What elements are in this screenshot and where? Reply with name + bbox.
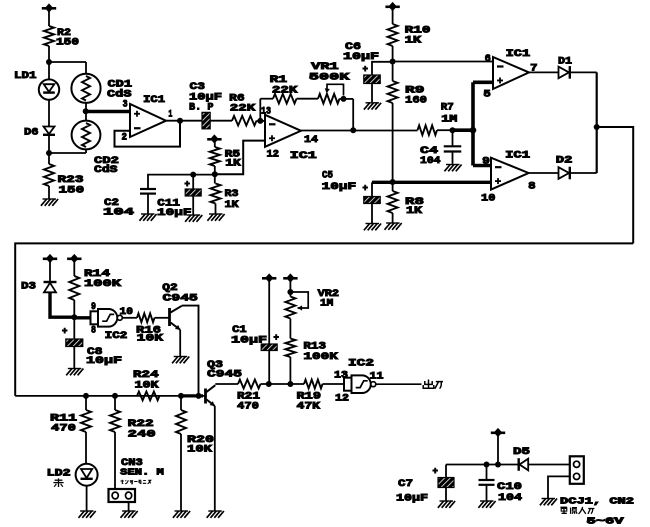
ground — [438, 501, 455, 508]
capacitor C8 — [62, 327, 83, 347]
svg-text:10μF: 10μF — [231, 334, 267, 346]
wire — [497, 435, 499, 465]
wire — [289, 280, 291, 297]
capacitor C1 — [261, 333, 279, 351]
svg-text:10μF: 10μF — [343, 51, 379, 63]
svg-text:1M: 1M — [441, 113, 457, 125]
diode D3 — [44, 282, 57, 292]
wire rail bottom — [15, 395, 205, 397]
svg-text:D6: D6 — [24, 127, 39, 139]
svg-text:160: 160 — [405, 95, 427, 107]
svg-text:100K: 100K — [84, 278, 122, 290]
svg-text:10: 10 — [120, 306, 134, 318]
ground — [185, 215, 202, 222]
label Q2 C945 — [162, 282, 198, 304]
label D1 — [558, 56, 572, 68]
svg-text:C5: C5 — [322, 170, 333, 182]
wire — [392, 103, 394, 191]
svg-text:9: 9 — [91, 301, 96, 313]
wire pin3 input — [86, 110, 130, 113]
resistor R2 — [44, 26, 54, 46]
pin 11 — [370, 370, 384, 382]
svg-text:9: 9 — [482, 156, 490, 168]
label VR1 500K — [309, 61, 351, 83]
svg-text:500K: 500K — [309, 72, 351, 84]
resistor R11 — [81, 396, 91, 464]
svg-text:B. P: B. P — [189, 101, 214, 113]
wire — [147, 194, 149, 214]
svg-text:IC1: IC1 — [505, 150, 530, 162]
pin 1 — [168, 108, 172, 120]
wire (thick) — [181, 394, 203, 397]
svg-text:10μF: 10μF — [322, 181, 357, 193]
pin 3 — [123, 99, 128, 111]
label power-input (kanji) — [560, 507, 594, 514]
resistor R16 — [137, 313, 155, 322]
pin 13 — [334, 369, 348, 381]
resistor R7 — [418, 125, 438, 135]
wire — [371, 84, 373, 103]
wire — [571, 71, 597, 73]
wire — [48, 46, 50, 80]
wire — [392, 46, 394, 81]
svg-text:D2: D2 — [556, 154, 573, 166]
svg-text:13: 13 — [334, 369, 348, 381]
svg-text:10K: 10K — [137, 333, 164, 345]
node junction — [46, 150, 52, 156]
wire feedback — [115, 121, 181, 147]
pin 9 — [91, 301, 96, 313]
label D2 — [556, 154, 573, 166]
node junction — [450, 127, 456, 133]
wire — [73, 347, 75, 369]
wire — [85, 103, 87, 121]
wire to lower block — [597, 127, 634, 243]
pin 14 — [304, 134, 318, 146]
wire emitter — [179, 330, 181, 356]
wire (thick) — [74, 316, 90, 319]
wire — [372, 62, 393, 75]
wire — [260, 98, 273, 100]
label R9 160 — [405, 85, 427, 107]
wire output — [376, 383, 421, 385]
resistor R21 — [238, 380, 261, 389]
wire — [122, 317, 137, 319]
label C6 10uF — [343, 41, 379, 63]
svg-text:CdS: CdS — [94, 164, 118, 176]
label Q3 C945 — [207, 359, 242, 380]
wire — [392, 213, 394, 223]
label C7 10uF — [396, 478, 428, 505]
wire — [486, 485, 488, 501]
node junction — [350, 127, 356, 133]
wire threshold2 (thick) — [372, 181, 491, 184]
resistor R20 — [176, 396, 186, 511]
ground — [121, 511, 138, 518]
pin 12 — [335, 392, 349, 404]
svg-text:SEN. M: SEN. M — [120, 467, 164, 478]
label D6 — [24, 127, 39, 139]
label R19 47K — [297, 391, 322, 413]
svg-text:1M: 1M — [320, 298, 333, 310]
wire — [128, 502, 130, 511]
capacitor C3 — [202, 112, 210, 129]
wire — [340, 99, 354, 130]
node junction — [287, 289, 293, 295]
svg-text:LD1: LD1 — [14, 70, 37, 82]
label IC1 — [290, 150, 317, 162]
capacitor C7 — [433, 465, 455, 488]
node junction — [112, 393, 118, 399]
label 5-6V — [587, 516, 624, 527]
label C2 104 — [103, 197, 134, 219]
label R6 22K — [229, 93, 256, 115]
pin 8 — [91, 324, 96, 336]
svg-text:10μF: 10μF — [86, 355, 122, 367]
node junction — [390, 179, 396, 185]
node junction — [46, 59, 52, 65]
capacitor C2 — [140, 189, 156, 194]
ground — [79, 511, 96, 518]
svg-text:22K: 22K — [272, 84, 298, 96]
label IC1 — [505, 150, 530, 162]
svg-text:10μF: 10μF — [396, 493, 428, 505]
svg-text:C945: C945 — [163, 292, 198, 304]
svg-text:+: + — [185, 180, 190, 190]
wire output IC1-14 — [301, 130, 418, 132]
label D3 — [21, 281, 36, 293]
wire — [392, 9, 394, 24]
node junction — [212, 171, 218, 177]
ground — [364, 103, 381, 110]
svg-text:13: 13 — [261, 106, 271, 118]
label IC1 — [506, 48, 531, 60]
wire — [48, 10, 50, 26]
svg-text:1K: 1K — [225, 199, 240, 211]
svg-text:C7: C7 — [398, 478, 413, 490]
label R10 1K — [405, 25, 431, 47]
label R2 150 — [56, 27, 79, 49]
potentiometer VR2 — [285, 292, 308, 318]
pin 7 — [530, 63, 537, 75]
wire (thick) — [50, 292, 74, 317]
svg-text:8: 8 — [528, 181, 536, 193]
label R1 22K — [270, 74, 299, 96]
svg-text:10K: 10K — [187, 444, 213, 456]
svg-text:12: 12 — [335, 392, 349, 404]
label R20 10K — [187, 434, 214, 456]
resistor R19 — [304, 380, 323, 389]
connector CN3 — [109, 489, 136, 502]
wire — [268, 351, 270, 385]
wire — [257, 120, 266, 122]
svg-text:14: 14 — [304, 134, 318, 146]
power +V tap VR2 — [283, 273, 297, 282]
svg-text:470: 470 — [51, 423, 76, 435]
label CN3 SEN.M — [120, 457, 164, 477]
svg-text:IC2: IC2 — [348, 358, 374, 370]
LED LD1 — [39, 79, 59, 99]
comparator IC1 pin7 — [493, 57, 529, 89]
transistor Q2 — [170, 306, 182, 330]
diode D2 — [559, 167, 570, 180]
power +V tap C1 — [262, 273, 276, 282]
label C10 104 — [497, 481, 522, 504]
pin 9 — [482, 156, 490, 168]
ground — [172, 357, 189, 364]
power +V tap supply — [491, 428, 505, 437]
svg-text:8: 8 — [91, 324, 96, 336]
svg-text:R7: R7 — [441, 102, 454, 114]
resistor R10 — [388, 24, 398, 46]
power +V tap R14 — [67, 254, 81, 263]
svg-text:2: 2 — [122, 131, 128, 143]
label C3 10uF B.P — [189, 81, 222, 113]
label C5 10uF — [322, 170, 357, 194]
svg-text:104: 104 — [498, 492, 522, 504]
wire collector — [215, 383, 238, 385]
label R23 150 — [58, 174, 85, 197]
wire — [49, 62, 86, 74]
ground — [41, 199, 58, 206]
LED LD2 — [76, 464, 98, 486]
wire — [48, 136, 50, 164]
svg-text:DCJ1, CN2: DCJ1, CN2 — [560, 496, 634, 507]
node junction — [484, 462, 490, 468]
label LD1 — [14, 70, 37, 82]
wire threshold (thick) — [453, 82, 494, 165]
svg-text:104: 104 — [103, 207, 134, 219]
svg-text:LD2: LD2 — [47, 468, 71, 480]
pin 12 — [267, 149, 280, 161]
label R5 1K — [225, 149, 242, 170]
resistor R23 — [44, 164, 54, 186]
svg-text:5: 5 — [483, 89, 490, 101]
wire — [446, 464, 519, 466]
power +V tap divider — [385, 2, 399, 11]
pin 10 — [481, 193, 495, 205]
svg-text:+: + — [274, 333, 279, 343]
svg-text:IC1: IC1 — [506, 48, 531, 60]
svg-text:IC1: IC1 — [290, 150, 317, 162]
wire — [155, 317, 170, 319]
wire — [289, 357, 291, 384]
wire — [148, 175, 215, 189]
photocell CD1 — [71, 74, 100, 103]
node junction — [177, 118, 183, 124]
node junction — [495, 462, 501, 468]
comparator IC1 pin8 — [491, 158, 529, 190]
label C1 10uF — [231, 324, 267, 346]
ground — [478, 501, 495, 508]
label D5 — [513, 446, 530, 458]
wire — [85, 149, 87, 153]
wire feedback riser — [259, 99, 261, 121]
resistor R14 — [69, 261, 79, 317]
transistor Q3 — [206, 385, 216, 406]
label CD1 CdS — [107, 79, 132, 101]
label R7 1M — [441, 102, 458, 126]
resistor R1 — [273, 94, 296, 104]
label LD2 red — [47, 468, 71, 488]
label CD2 CdS — [94, 155, 119, 176]
svg-text:D5: D5 — [513, 446, 530, 458]
wire — [371, 204, 373, 224]
label R22 240 — [128, 418, 156, 441]
power +V tap top-left — [42, 3, 56, 12]
pin 5 — [483, 89, 490, 101]
label IC1 — [143, 94, 165, 106]
label R8 1K — [405, 196, 424, 217]
wire — [289, 319, 291, 339]
svg-text:104: 104 — [420, 155, 441, 167]
svg-text:+: + — [62, 327, 67, 337]
wire emitter — [214, 406, 216, 511]
power +V tap D3 — [43, 254, 57, 263]
svg-text:+: + — [433, 467, 438, 477]
svg-text:11: 11 — [370, 370, 384, 382]
svg-text:150: 150 — [56, 37, 79, 49]
node junction — [196, 393, 202, 399]
label R21 470 — [237, 391, 260, 413]
svg-text:10μF: 10μF — [157, 207, 192, 219]
label output (kanji) — [423, 380, 443, 389]
wire plus-input — [215, 141, 265, 175]
node junction — [470, 127, 477, 134]
power +V tap R5 — [207, 134, 221, 143]
svg-text:D3: D3 — [21, 281, 36, 293]
wire — [48, 186, 50, 199]
svg-text:1K: 1K — [406, 205, 423, 217]
ground — [385, 223, 402, 230]
resistor R5 — [210, 141, 220, 166]
connector DCJ1 CN2 — [570, 456, 584, 484]
capacitor C11 — [185, 175, 202, 196]
resistor R22 — [110, 396, 120, 489]
svg-text:IC2: IC2 — [105, 330, 128, 342]
wire — [49, 261, 51, 282]
label R3 1K — [225, 188, 240, 211]
node junction — [390, 59, 396, 65]
schmitt inverter IC2 pin11 — [344, 375, 376, 393]
resistor R8 — [388, 191, 398, 213]
svg-text:150: 150 — [59, 185, 85, 197]
ground — [66, 369, 83, 376]
wire — [297, 98, 319, 100]
svg-text:10K: 10K — [135, 379, 160, 391]
photocell CD2 — [72, 121, 101, 150]
svg-text:240: 240 — [128, 429, 156, 441]
capacitor C5 — [363, 182, 381, 203]
wire — [529, 172, 559, 174]
ground — [207, 511, 224, 518]
label R11 470 — [50, 413, 77, 435]
resistor R13 — [285, 339, 295, 358]
label C4 104 — [420, 145, 441, 167]
label VR2 1M — [318, 288, 340, 309]
node junction — [83, 393, 89, 399]
diode D5 — [519, 458, 529, 471]
label C11 10uF — [157, 197, 192, 219]
node junction — [341, 96, 347, 102]
svg-text:12: 12 — [267, 149, 280, 161]
label DCJ1 CN2 — [560, 496, 634, 507]
pin 8 — [528, 181, 536, 193]
wire — [48, 100, 50, 127]
wire output — [166, 120, 202, 122]
node junction — [83, 108, 89, 114]
wire — [571, 172, 597, 174]
ground — [540, 499, 557, 506]
svg-text:IC1: IC1 — [143, 94, 165, 106]
ground — [207, 214, 224, 221]
wire — [215, 204, 217, 214]
svg-text:1K: 1K — [405, 35, 422, 47]
pin 6 — [485, 53, 491, 65]
capacitor C10 — [479, 465, 495, 485]
wire collector — [182, 306, 199, 396]
svg-text:D1: D1 — [558, 56, 572, 68]
svg-text:C945: C945 — [207, 368, 242, 380]
resistor R9 — [388, 81, 398, 103]
svg-text:10: 10 — [481, 193, 495, 205]
pin 2 — [122, 131, 128, 143]
wire — [86, 486, 88, 511]
schmitt inverter IC2 pin10 — [91, 309, 123, 327]
wire — [73, 317, 75, 339]
node junction — [178, 393, 184, 399]
label R14 100K — [84, 268, 122, 290]
ground — [444, 165, 461, 172]
resistor R3 — [211, 184, 221, 204]
node junction — [71, 314, 77, 320]
svg-text:470: 470 — [237, 401, 259, 413]
label R16 10K — [136, 324, 164, 344]
svg-text:6: 6 — [485, 53, 491, 65]
svg-text:+: + — [363, 184, 368, 194]
resistor R24 — [137, 392, 160, 401]
op-amp IC1 pin1 — [130, 104, 166, 137]
node junction — [287, 381, 293, 387]
diode D1 — [559, 66, 570, 79]
label IC2 — [105, 330, 128, 342]
svg-text:1: 1 — [168, 108, 172, 120]
capacitor C4 — [444, 130, 462, 164]
pin 13 — [261, 106, 271, 118]
node junction — [594, 124, 600, 130]
wire — [548, 476, 570, 498]
wire — [210, 120, 232, 122]
svg-text:1K: 1K — [225, 158, 241, 170]
label IC2 — [348, 358, 374, 370]
wire pin6 input — [393, 61, 493, 63]
svg-text:3: 3 — [123, 99, 128, 111]
ground — [173, 511, 190, 518]
label sensor-monitor (small kana) — [121, 480, 151, 484]
wire — [214, 174, 216, 183]
svg-text:47K: 47K — [297, 401, 321, 413]
wire — [214, 166, 216, 174]
wire — [437, 129, 453, 131]
capacitor C6 — [363, 65, 381, 84]
wire — [268, 280, 270, 344]
node junction — [257, 118, 263, 124]
wire — [49, 152, 86, 154]
svg-text:100K: 100K — [303, 351, 338, 363]
svg-text:+: + — [363, 65, 368, 75]
label R24 10K — [133, 369, 159, 391]
diode D6 — [43, 127, 55, 135]
